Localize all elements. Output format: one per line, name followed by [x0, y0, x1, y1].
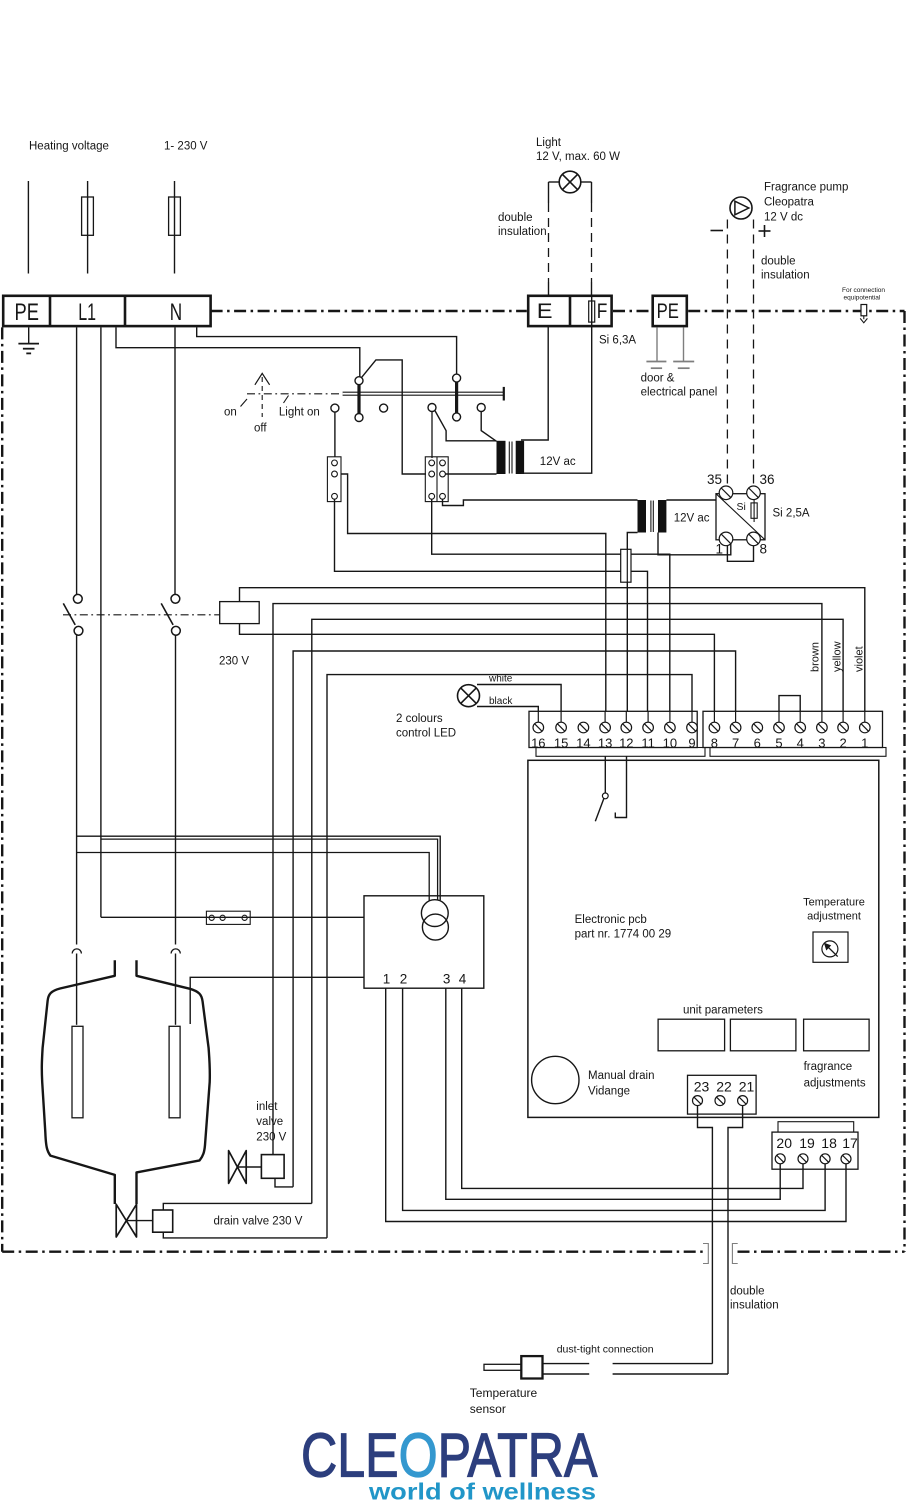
svg-text:sensor: sensor	[470, 1402, 506, 1416]
svg-text:12 V, max. 60 W: 12 V, max. 60 W	[536, 151, 620, 163]
svg-text:adjustments: adjustments	[804, 1078, 866, 1090]
svg-text:22: 22	[716, 1079, 732, 1095]
svg-text:dust-tight connection: dust-tight connection	[557, 1344, 654, 1356]
svg-text:4: 4	[459, 972, 467, 987]
svg-text:230 V: 230 V	[256, 1132, 286, 1144]
svg-text:2: 2	[839, 735, 846, 750]
svg-text:world of wellness: world of wellness	[368, 1479, 596, 1502]
svg-text:N: N	[170, 299, 182, 326]
svg-text:19: 19	[799, 1135, 815, 1151]
svg-text:12V ac: 12V ac	[674, 513, 710, 525]
svg-text:1- 230 V: 1- 230 V	[164, 141, 208, 153]
svg-text:Manual drain: Manual drain	[588, 1070, 654, 1082]
svg-text:off: off	[254, 423, 267, 435]
svg-text:on: on	[224, 407, 237, 419]
svg-text:black: black	[489, 696, 513, 707]
svg-text:double: double	[761, 256, 796, 268]
svg-text:electrical panel: electrical panel	[641, 387, 718, 399]
svg-text:35: 35	[707, 472, 722, 487]
svg-text:part nr. 1774 00 29: part nr. 1774 00 29	[575, 929, 672, 941]
svg-text:equipotential: equipotential	[844, 295, 881, 302]
svg-text:E: E	[537, 300, 553, 323]
svg-text:2: 2	[400, 972, 408, 987]
svg-text:5: 5	[775, 735, 782, 750]
svg-text:Si 6,3A: Si 6,3A	[599, 335, 636, 347]
svg-text:fragrance: fragrance	[804, 1061, 853, 1073]
svg-text:14: 14	[576, 735, 590, 750]
svg-text:7: 7	[732, 735, 739, 750]
svg-text:8: 8	[760, 542, 768, 557]
svg-text:2 colours: 2 colours	[396, 713, 443, 725]
svg-text:Si: Si	[737, 501, 746, 513]
svg-text:3: 3	[443, 972, 451, 987]
svg-text:Heating voltage: Heating voltage	[29, 141, 109, 153]
svg-text:230 V: 230 V	[219, 656, 249, 668]
svg-text:20: 20	[776, 1135, 792, 1151]
svg-text:17: 17	[842, 1135, 858, 1151]
svg-text:10: 10	[663, 735, 677, 750]
svg-text:door &: door &	[641, 373, 675, 385]
svg-text:PE: PE	[657, 300, 679, 323]
svg-text:Electronic pcb: Electronic pcb	[575, 914, 647, 926]
svg-text:1: 1	[383, 972, 391, 987]
svg-text:12 V dc: 12 V dc	[764, 212, 803, 224]
svg-text:6: 6	[754, 735, 761, 750]
svg-text:insulation: insulation	[498, 226, 547, 238]
svg-text:For connection: For connection	[842, 287, 885, 294]
svg-text:valve: valve	[256, 1116, 283, 1128]
svg-text:9: 9	[688, 735, 695, 750]
svg-text:double: double	[730, 1286, 765, 1298]
svg-text:11: 11	[641, 735, 655, 750]
svg-text:12: 12	[619, 735, 633, 750]
svg-text:drain valve 230 V: drain valve 230 V	[214, 1216, 303, 1228]
svg-text:Temperature: Temperature	[803, 897, 865, 909]
svg-text:Si 2,5A: Si 2,5A	[773, 508, 810, 520]
svg-text:Cleopatra: Cleopatra	[764, 197, 814, 209]
svg-text:L1: L1	[78, 299, 96, 326]
svg-text:Light on: Light on	[279, 407, 320, 419]
svg-text:18: 18	[821, 1135, 837, 1151]
svg-text:Temperature: Temperature	[470, 1386, 538, 1400]
svg-text:brown: brown	[810, 642, 822, 672]
svg-text:insulation: insulation	[761, 270, 810, 282]
svg-text:control LED: control LED	[396, 728, 456, 740]
svg-text:13: 13	[598, 735, 612, 750]
svg-text:double: double	[498, 212, 533, 224]
svg-text:3: 3	[818, 735, 825, 750]
svg-text:PE: PE	[15, 299, 39, 326]
svg-text:36: 36	[760, 472, 775, 487]
svg-text:12V ac: 12V ac	[540, 456, 576, 468]
svg-text:Fragrance pump: Fragrance pump	[764, 182, 848, 194]
svg-text:23: 23	[694, 1079, 710, 1095]
svg-text:15: 15	[554, 735, 568, 750]
svg-text:1: 1	[716, 542, 724, 557]
svg-text:yellow: yellow	[832, 641, 844, 672]
svg-text:1: 1	[861, 735, 868, 750]
svg-text:Light: Light	[536, 137, 562, 149]
svg-text:21: 21	[739, 1079, 755, 1095]
svg-text:insulation: insulation	[730, 1300, 779, 1312]
svg-text:white: white	[488, 674, 513, 685]
svg-text:F: F	[597, 300, 608, 323]
svg-text:16: 16	[531, 735, 545, 750]
svg-text:4: 4	[797, 735, 804, 750]
svg-text:violet: violet	[854, 646, 866, 672]
svg-text:8: 8	[711, 735, 718, 750]
svg-text:inlet: inlet	[256, 1101, 278, 1113]
svg-text:unit parameters: unit parameters	[683, 1005, 763, 1017]
svg-text:Vidange: Vidange	[588, 1086, 630, 1098]
svg-text:adjustment: adjustment	[807, 911, 861, 923]
